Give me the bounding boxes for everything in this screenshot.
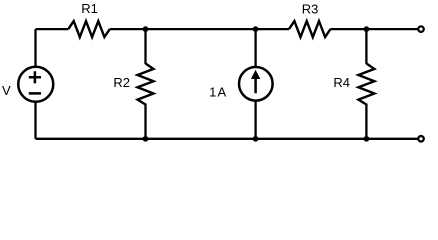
node junction bottom R4	[364, 136, 370, 142]
value label 1 A	[209, 85, 226, 100]
wire R2 branch bottom stub	[144, 104, 146, 139]
node junction bottom current source	[253, 136, 259, 142]
node junction top current source	[253, 26, 259, 32]
svg-text:1: 1	[209, 85, 216, 100]
svg-text:R1: R1	[81, 1, 98, 16]
voltage source V circle	[18, 67, 53, 102]
current source arrow	[251, 70, 260, 94]
resistor R2	[138, 64, 154, 105]
resistor R3	[289, 21, 331, 37]
svg-text:A: A	[217, 85, 226, 100]
wire R4 branch bottom stub	[365, 104, 367, 139]
wire R4 branch top stub	[365, 29, 367, 64]
svg-text:R3: R3	[302, 1, 319, 16]
terminal top right	[418, 26, 424, 32]
wire top segment R3 to terminal	[331, 28, 418, 30]
svg-text:R2: R2	[113, 75, 130, 90]
node junction top R4	[364, 26, 370, 32]
svg-text:R4: R4	[333, 75, 350, 90]
resistor R1	[68, 21, 110, 37]
svg-text:V: V	[2, 83, 11, 98]
terminal bottom right	[418, 136, 424, 142]
resistor R4	[358, 64, 374, 105]
wire R2 branch top stub	[144, 29, 146, 64]
wire bottom rail	[36, 138, 418, 140]
wire current source branch	[254, 29, 256, 139]
voltage source minus sign	[29, 92, 41, 95]
wire top segment R1 to R3	[110, 28, 289, 30]
node junction top R2	[143, 26, 149, 32]
voltage source plus sign	[29, 71, 41, 83]
node junction bottom R2	[143, 136, 149, 142]
current source I1 circle	[239, 67, 273, 101]
wire top segment V+ to R1	[36, 28, 69, 30]
wire left vertical (V source branch)	[34, 29, 36, 139]
